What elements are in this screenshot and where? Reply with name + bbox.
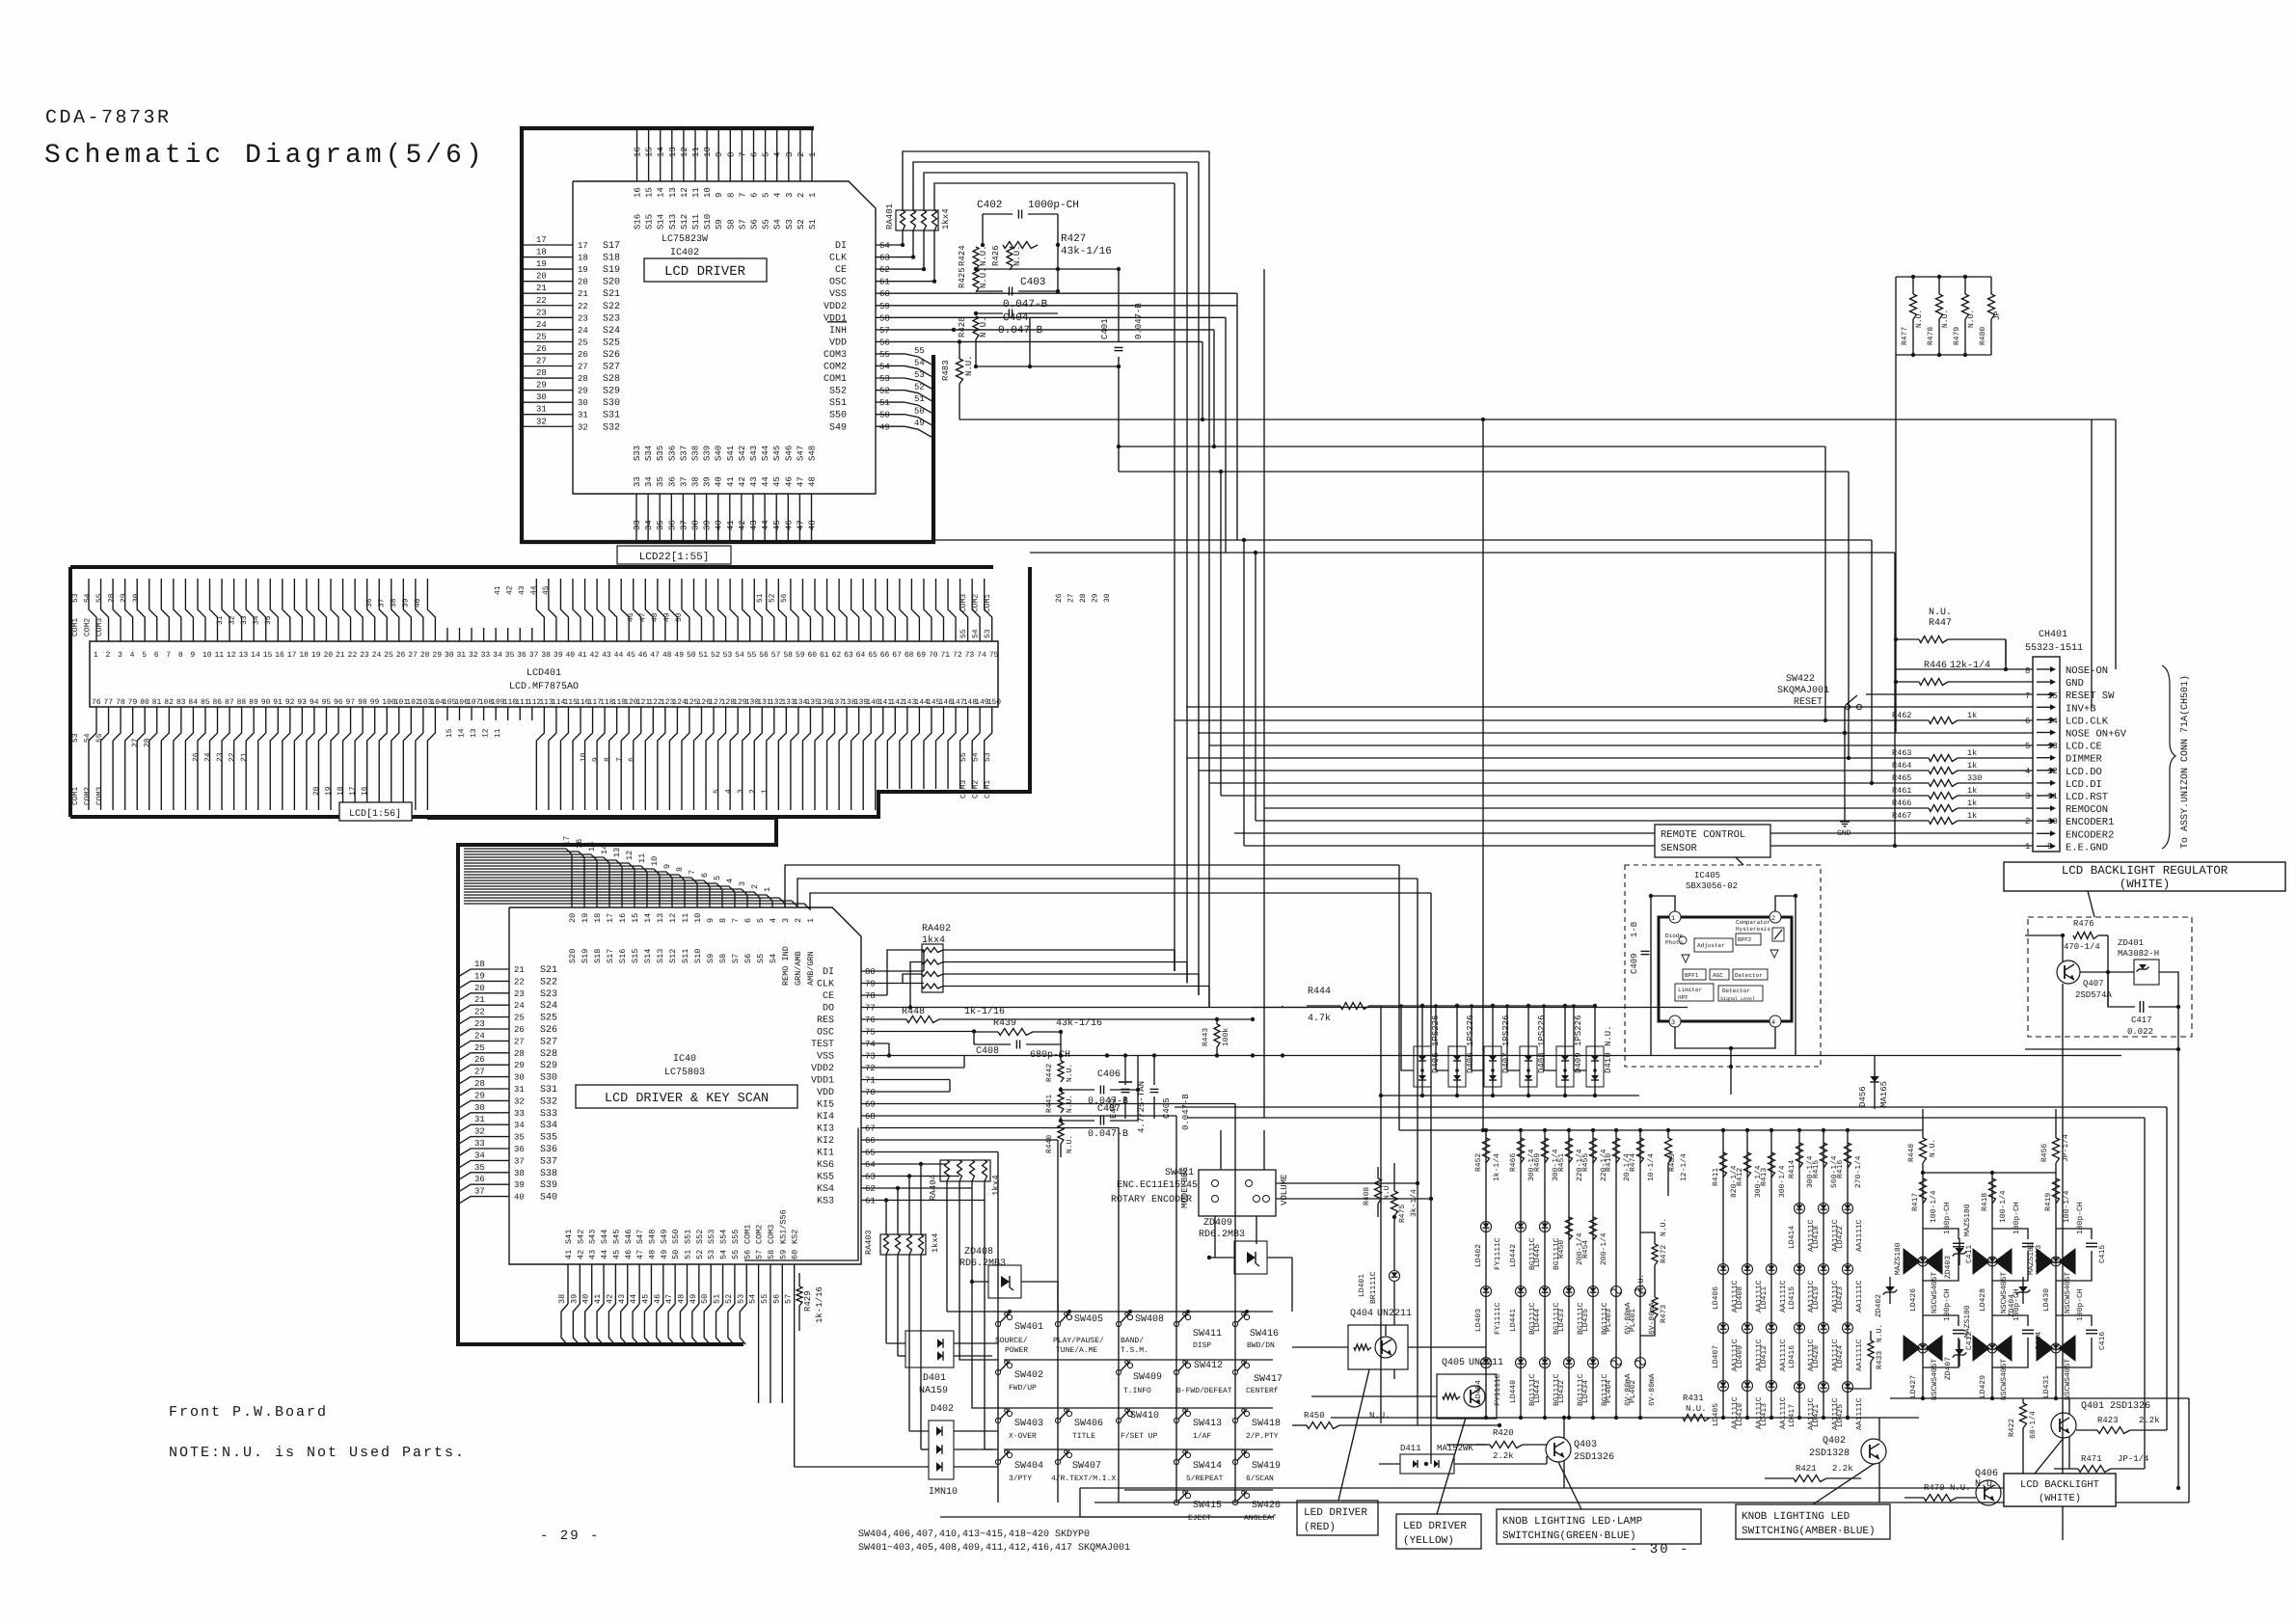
svg-text:5: 5 <box>762 193 771 198</box>
svg-text:30: 30 <box>474 1103 485 1113</box>
svg-text:1kx4: 1kx4 <box>941 208 951 230</box>
capacitor E402 4.7/25-TAN <box>1124 1056 1126 1086</box>
LED LD414 AA1111C <box>1795 1204 1805 1214</box>
svg-text:COM2: COM2 <box>755 1225 765 1244</box>
svg-text:1k-1/4: 1k-1/4 <box>1493 1153 1501 1181</box>
wire RA402 inputs <box>910 962 922 1008</box>
IC405 pin2 circle <box>1769 911 1781 923</box>
svg-text:61: 61 <box>820 651 829 660</box>
LED LD443 BG1111C <box>1540 1358 1551 1368</box>
svg-text:22: 22 <box>348 651 358 660</box>
LED LD445 BG1111C <box>1540 1222 1551 1232</box>
wire LED bottom rail A y=1470 <box>1331 1417 1678 1419</box>
svg-text:S6: S6 <box>743 954 753 963</box>
svg-text:R440: R440 <box>1045 1135 1054 1153</box>
svg-text:S11: S11 <box>691 214 701 230</box>
svg-text:63: 63 <box>865 1173 876 1182</box>
svg-text:32: 32 <box>474 1127 485 1137</box>
svg-text:0.047-B: 0.047-B <box>1088 1129 1128 1140</box>
svg-text:54: 54 <box>735 651 744 660</box>
svg-text:COM2: COM2 <box>972 780 981 798</box>
svg-text:25: 25 <box>578 338 588 347</box>
resistor R477 N.U. <box>1896 276 1991 278</box>
LED LD415 AA1111C <box>1795 1264 1805 1275</box>
resistor R410 20-1/4 <box>1613 1138 1620 1163</box>
svg-text:R443: R443 <box>1202 1028 1210 1046</box>
svg-text:30: 30 <box>445 651 454 660</box>
resistor R412 300-1/4 <box>1744 1152 1751 1177</box>
svg-text:8: 8 <box>604 757 612 762</box>
svg-text:42: 42 <box>738 520 747 530</box>
svg-text:CE: CE <box>823 991 834 1002</box>
svg-text:COM1: COM1 <box>71 618 80 636</box>
resistor R448b N.U. vertical <box>1922 1109 1924 1138</box>
svg-text:4.7k: 4.7k <box>1308 1013 1331 1024</box>
LED LD413 AA1111C <box>1767 1381 1777 1392</box>
wire Q402 collector <box>1878 1418 1880 1440</box>
svg-text:REMO IND: REMO IND <box>781 946 791 986</box>
svg-text:78: 78 <box>865 991 876 1001</box>
resistor R454 200-1/4 <box>1590 1217 1597 1240</box>
svg-text:42: 42 <box>738 476 747 487</box>
svg-text:IC402: IC402 <box>670 248 699 258</box>
svg-text:LD423: LD423 <box>1836 1286 1845 1310</box>
svg-text:S39: S39 <box>540 1180 557 1191</box>
svg-text:51: 51 <box>879 398 890 408</box>
svg-text:7: 7 <box>166 651 171 660</box>
svg-text:32: 32 <box>536 417 547 426</box>
svg-text:R426: R426 <box>991 245 1001 266</box>
resistor R472 N.U. <box>1640 1232 1655 1244</box>
svg-text:16: 16 <box>361 786 369 796</box>
svg-text:R452: R452 <box>1474 1153 1483 1172</box>
svg-text:LD432: LD432 <box>1557 1380 1566 1403</box>
svg-text:67: 67 <box>892 651 902 660</box>
zener ZD404 MAZS180 <box>2018 1286 2028 1292</box>
svg-text:12: 12 <box>680 187 689 198</box>
wire RA402 outputs to vertical buses <box>943 949 1175 951</box>
svg-text:COM1: COM1 <box>824 374 847 385</box>
svg-text:58: 58 <box>783 651 793 660</box>
svg-text:SENSOR: SENSOR <box>1661 843 1698 854</box>
svg-text:S26: S26 <box>540 1025 557 1036</box>
svg-text:S13: S13 <box>668 214 678 230</box>
svg-text:IC40: IC40 <box>673 1054 696 1065</box>
label LCD BACKLIGHT REGULATOR box <box>2004 862 2285 891</box>
svg-text:60: 60 <box>879 289 890 299</box>
svg-text:R416: R416 <box>1836 1160 1845 1178</box>
wire mid verticals feeding CH401 rows <box>1220 472 1222 796</box>
svg-text:S25: S25 <box>603 338 620 348</box>
svg-text:680p-CH: 680p-CH <box>1030 1050 1070 1061</box>
svg-text:VDD1: VDD1 <box>824 313 847 324</box>
LED LD440 BG1111C <box>1516 1358 1526 1368</box>
svg-text:LD402: LD402 <box>1474 1244 1483 1267</box>
svg-text:56: 56 <box>771 1294 781 1304</box>
svg-text:35: 35 <box>514 1133 525 1143</box>
svg-text:S40: S40 <box>540 1193 557 1204</box>
svg-text:R418: R418 <box>1981 1193 1989 1211</box>
resistor R415 560-1/4 <box>1821 1143 1827 1168</box>
svg-text:DI: DI <box>823 967 834 978</box>
svg-text:LCD401: LCD401 <box>527 668 561 679</box>
svg-text:23: 23 <box>474 1019 485 1029</box>
svg-text:19: 19 <box>536 259 547 269</box>
svg-text:TITLE: TITLE <box>1072 1432 1095 1441</box>
svg-text:26: 26 <box>474 1055 485 1065</box>
svg-text:35: 35 <box>656 520 665 530</box>
resistor array RA403 1kx4 <box>880 1234 926 1255</box>
IC U40 LC75803 chip outline <box>509 907 861 1264</box>
svg-text:30: 30 <box>578 398 588 408</box>
wire IC402 pin60 VSS <box>876 292 1237 294</box>
transistor Q406 N.U. <box>1976 1480 2001 1505</box>
svg-text:20: 20 <box>323 651 333 660</box>
resistor R471 JP-1/4 <box>2054 1468 2078 1470</box>
svg-text:56: 56 <box>743 1250 752 1259</box>
svg-text:90: 90 <box>261 698 271 707</box>
wire regulator down <box>2062 984 2064 1540</box>
svg-text:C417: C417 <box>2131 1015 2152 1025</box>
svg-text:S18: S18 <box>593 949 603 963</box>
svg-text:LD405: LD405 <box>1712 1403 1720 1426</box>
svg-text:- 29 -: - 29 - <box>540 1529 600 1544</box>
svg-text:R424: R424 <box>958 245 967 266</box>
svg-text:S7: S7 <box>738 219 747 230</box>
svg-text:S37: S37 <box>540 1156 557 1167</box>
svg-text:11: 11 <box>681 913 690 923</box>
svg-text:7: 7 <box>738 152 747 157</box>
svg-text:50: 50 <box>914 407 925 417</box>
svg-text:R478: R478 <box>1927 327 1935 345</box>
svg-text:28: 28 <box>514 1049 525 1059</box>
svg-text:52: 52 <box>769 593 777 603</box>
zener ZD407 MAZS180 <box>1955 1349 1964 1355</box>
svg-text:1k: 1k <box>1967 786 1977 796</box>
svg-text:13: 13 <box>612 848 622 857</box>
svg-text:S10: S10 <box>703 214 713 230</box>
wire IC40 pin80 DI row <box>861 970 924 972</box>
svg-text:10: 10 <box>2047 817 2058 826</box>
svg-text:1: 1 <box>94 651 98 660</box>
svg-text:29: 29 <box>536 381 547 391</box>
svg-text:48: 48 <box>662 651 672 660</box>
wire CH401 row NOSE-ON <box>1896 668 2033 670</box>
resistor R417 100-1/4 <box>1920 1178 1927 1204</box>
svg-text:28: 28 <box>144 738 152 747</box>
svg-text:31: 31 <box>216 615 225 625</box>
LED LD422 AA1111C <box>1843 1204 1853 1214</box>
svg-text:92: 92 <box>285 698 295 707</box>
svg-text:2: 2 <box>106 651 111 660</box>
svg-text:49: 49 <box>660 1250 669 1259</box>
svg-text:2: 2 <box>797 193 806 198</box>
svg-text:22: 22 <box>578 302 588 311</box>
svg-text:37: 37 <box>474 1187 485 1197</box>
svg-text:LCD[1:56]: LCD[1:56] <box>349 808 401 820</box>
svg-text:1-B: 1-B <box>1630 921 1639 937</box>
svg-text:D456: D456 <box>1858 1086 1868 1107</box>
svg-text:55: 55 <box>747 651 757 660</box>
svg-text:NSCWS405T: NSCWS405T <box>2064 1359 2072 1400</box>
svg-text:LD431: LD431 <box>2042 1375 2051 1398</box>
svg-text:RA404: RA404 <box>929 1175 938 1201</box>
svg-text:KS2: KS2 <box>791 1230 800 1244</box>
svg-text:94: 94 <box>310 698 319 707</box>
wire comb LCD401 top pins to bus <box>89 579 96 641</box>
svg-text:GND: GND <box>1837 829 1851 838</box>
svg-text:71: 71 <box>865 1076 876 1086</box>
svg-text:79: 79 <box>865 980 876 989</box>
svg-text:53: 53 <box>879 374 890 384</box>
svg-text:SW410: SW410 <box>1130 1411 1159 1421</box>
svg-text:29: 29 <box>120 593 128 603</box>
svg-text:4.7/25-TAN: 4.7/25-TAN <box>1137 1081 1147 1133</box>
svg-text:KS1/S56: KS1/S56 <box>778 1209 788 1244</box>
wire IC402 left pins 17-32 with labels <box>522 244 573 246</box>
capacitor C413 100p-CH <box>2022 1242 2034 1244</box>
svg-text:19: 19 <box>474 971 485 981</box>
svg-text:26: 26 <box>396 651 406 660</box>
svg-text:17: 17 <box>536 235 547 245</box>
wire IC402 pin62 CE <box>876 268 924 270</box>
resistor R414 300-1/4 <box>1796 1143 1803 1168</box>
svg-text:SOURCE/: SOURCE/ <box>995 1337 1028 1345</box>
svg-text:S16: S16 <box>618 949 628 963</box>
svg-text:1/AF: 1/AF <box>1193 1432 1211 1441</box>
label REMOTE CONTROL SENSOR box <box>1655 825 1770 857</box>
svg-text:75: 75 <box>989 651 999 660</box>
svg-text:NSCWS405T: NSCWS405T <box>2064 1272 2072 1313</box>
svg-text:37: 37 <box>514 1156 525 1166</box>
svg-text:12: 12 <box>668 913 678 923</box>
svg-text:24: 24 <box>536 320 547 330</box>
svg-text:41: 41 <box>726 520 736 530</box>
net label LCD22[1:55] <box>617 546 731 564</box>
svg-text:ZD402: ZD402 <box>1875 1294 1883 1317</box>
svg-text:LD417: LD417 <box>1788 1404 1796 1427</box>
wire LED column at x=1812 <box>1745 1128 1749 1132</box>
svg-text:47: 47 <box>639 612 648 622</box>
svg-text:11: 11 <box>215 651 225 660</box>
svg-text:S47: S47 <box>635 1230 645 1244</box>
svg-text:46: 46 <box>627 612 635 622</box>
svg-text:ANGLEAf: ANGLEAf <box>1244 1514 1277 1523</box>
diode D411 MA152WK <box>1400 1454 1454 1474</box>
svg-text:MAZS180: MAZS180 <box>1963 1305 1972 1338</box>
svg-text:S37: S37 <box>679 446 689 461</box>
svg-text:R412: R412 <box>1736 1168 1744 1186</box>
svg-text:S25: S25 <box>540 1014 557 1024</box>
wire RA403 out2 to D401 <box>897 1188 899 1234</box>
leader lines from labels <box>1338 1369 1369 1501</box>
svg-text:LD413: LD413 <box>1760 1403 1769 1426</box>
svg-text:CDA-7873R: CDA-7873R <box>45 107 172 129</box>
svg-text:16: 16 <box>275 651 284 660</box>
svg-text:0.022: 0.022 <box>2127 1027 2153 1037</box>
svg-text:12: 12 <box>2047 767 2058 776</box>
svg-text:36: 36 <box>517 651 527 660</box>
svg-text:30: 30 <box>536 392 547 402</box>
wire LED column at x=1627 <box>1567 1128 1571 1132</box>
svg-text:R450: R450 <box>1557 1240 1566 1259</box>
LED LD418 AA1111C <box>1819 1204 1829 1214</box>
svg-text:26: 26 <box>192 752 201 762</box>
resistor R452 1k-1/4 <box>1483 1138 1490 1163</box>
svg-text:39: 39 <box>514 1180 525 1190</box>
svg-text:53: 53 <box>723 651 733 660</box>
svg-text:36: 36 <box>474 1175 485 1184</box>
wire node row y=279 <box>976 268 1119 270</box>
resistor R473 N.U. <box>1652 1297 1658 1318</box>
svg-text:DIMMER: DIMMER <box>2066 754 2103 766</box>
svg-text:SW408: SW408 <box>1135 1314 1164 1325</box>
svg-text:D401: D401 <box>923 1373 946 1384</box>
svg-text:SW404,406,407,410,413~415,418~: SW404,406,407,410,413~415,418~420 SKDYP0 <box>858 1529 1090 1540</box>
resistor R439 43k-1/16 <box>973 1031 975 1034</box>
svg-text:54: 54 <box>879 363 890 372</box>
svg-text:ENCODER1: ENCODER1 <box>2066 817 2114 828</box>
svg-text:18: 18 <box>578 254 588 263</box>
svg-text:22: 22 <box>229 752 237 762</box>
svg-text:2SD1326: 2SD1326 <box>1574 1452 1614 1463</box>
svg-text:ENCODER2: ENCODER2 <box>2066 829 2114 841</box>
svg-text:24: 24 <box>204 752 213 762</box>
svg-text:S36: S36 <box>540 1145 557 1155</box>
svg-text:58: 58 <box>879 313 890 323</box>
svg-text:R455: R455 <box>1581 1153 1590 1172</box>
svg-text:R473: R473 <box>1660 1305 1668 1323</box>
svg-text:SWITCHING(AMBER·BLUE): SWITCHING(AMBER·BLUE) <box>1742 1526 1876 1537</box>
svg-text:1k: 1k <box>1967 798 1977 808</box>
svg-text:COM2: COM2 <box>84 787 93 805</box>
svg-text:15: 15 <box>645 147 655 157</box>
svg-text:R419: R419 <box>2044 1193 2053 1211</box>
svg-text:JP: JP <box>1993 311 2002 320</box>
wire C401 branch <box>1118 269 1120 341</box>
svg-text:KS6: KS6 <box>817 1160 834 1171</box>
svg-text:S10: S10 <box>693 949 703 963</box>
svg-text:64: 64 <box>879 241 890 251</box>
svg-text:LD425: LD425 <box>1836 1404 1845 1427</box>
svg-text:C408: C408 <box>976 1046 999 1057</box>
wire LED bottom rail B y=1470 <box>1678 1417 1919 1419</box>
svg-text:53: 53 <box>71 733 80 743</box>
svg-text:SW409: SW409 <box>1133 1372 1162 1383</box>
wire switch matrix rail KS row3 <box>992 1407 1273 1409</box>
svg-text:N.U.: N.U. <box>1066 1135 1074 1153</box>
svg-text:LD403: LD403 <box>1474 1309 1483 1332</box>
svg-text:41: 41 <box>726 476 736 487</box>
svg-text:S34: S34 <box>644 446 654 461</box>
svg-text:S49: S49 <box>829 422 847 433</box>
wire CH401 row ENCODER2 <box>1234 832 2033 834</box>
svg-text:S23: S23 <box>603 313 620 324</box>
svg-text:LED DRIVER: LED DRIVER <box>1403 1521 1467 1532</box>
lamp PL401 6V-80mA <box>1635 1286 1646 1297</box>
svg-text:43k-1/16: 43k-1/16 <box>1061 246 1112 257</box>
svg-text:100p-CH: 100p-CH <box>2076 1202 2085 1234</box>
svg-text:12: 12 <box>625 851 635 860</box>
svg-text:F/SET UP: F/SET UP <box>1121 1432 1158 1441</box>
svg-text:77: 77 <box>865 1004 876 1014</box>
wire sw422 wiring <box>1825 706 1845 708</box>
wire Q401 collector <box>2068 1398 2070 1414</box>
svg-text:59: 59 <box>879 302 890 311</box>
resistor R455 220-1/4 <box>1590 1138 1597 1163</box>
svg-text:33: 33 <box>240 615 249 625</box>
svg-text:44: 44 <box>600 1250 609 1259</box>
wire vertical bus x=1218 <box>1174 183 1175 971</box>
svg-text:100p-CH: 100p-CH <box>1943 1288 1952 1321</box>
svg-text:N.U.: N.U. <box>1660 1218 1668 1236</box>
svg-text:S2: S2 <box>797 219 806 230</box>
svg-text:1kx4: 1kx4 <box>922 934 945 946</box>
resistor R442 N.U. <box>1060 1056 1062 1062</box>
svg-text:6/SCAN: 6/SCAN <box>1246 1475 1274 1483</box>
svg-text:S30: S30 <box>540 1073 557 1084</box>
svg-text:COM3: COM3 <box>959 594 968 612</box>
svg-text:44: 44 <box>761 476 770 487</box>
svg-text:LD411: LD411 <box>1760 1286 1769 1310</box>
svg-text:29: 29 <box>514 1061 525 1070</box>
svg-text:34: 34 <box>474 1150 485 1160</box>
svg-text:INH: INH <box>829 326 847 337</box>
svg-text:R441: R441 <box>1045 1095 1054 1113</box>
wire IC402 pin58 VDD1 <box>876 316 1226 318</box>
svg-text:S13: S13 <box>656 949 665 963</box>
svg-text:R466: R466 <box>1509 1153 1518 1172</box>
IC405 pin3 circle <box>1669 1015 1681 1027</box>
wire IC40 pin74 TEST row <box>861 1042 889 1044</box>
zener ZD408 RD6.2MB3 <box>988 1265 1021 1298</box>
svg-text:R451: R451 <box>1557 1153 1566 1172</box>
LED LD428 NSCWS405T <box>1973 1249 1989 1274</box>
wire rail below diodes y=1136 <box>1381 1095 1639 1096</box>
svg-text:32: 32 <box>578 422 588 432</box>
svg-text:68: 68 <box>865 1112 876 1122</box>
svg-text:32: 32 <box>514 1096 525 1106</box>
svg-text:38: 38 <box>390 598 398 608</box>
svg-text:10: 10 <box>703 187 713 198</box>
svg-text:54: 54 <box>972 629 981 638</box>
svg-text:25: 25 <box>536 332 547 341</box>
svg-text:Q402: Q402 <box>1823 1436 1846 1447</box>
svg-text:LCD22[1:55]: LCD22[1:55] <box>639 552 710 563</box>
svg-text:15: 15 <box>587 842 597 852</box>
svg-text:50: 50 <box>700 1294 710 1304</box>
svg-text:S4: S4 <box>773 219 783 230</box>
svg-text:23: 23 <box>360 651 369 660</box>
svg-text:R444: R444 <box>1308 987 1331 997</box>
svg-text:S46: S46 <box>784 446 794 461</box>
LED LD435 BG1111C <box>1588 1286 1599 1297</box>
svg-text:R469: R469 <box>1533 1153 1542 1172</box>
svg-text:S42: S42 <box>576 1230 585 1244</box>
wire IC402 pins 55-49 staircase to bus <box>876 353 905 355</box>
LED LD402 FY1111C <box>1481 1222 1492 1232</box>
wire IC40 pin70 VDD row <box>861 1091 950 1093</box>
LED LD410 AA1111C <box>1742 1381 1753 1392</box>
svg-text:88: 88 <box>237 698 247 707</box>
capacitor C417 0.022 <box>2107 972 2109 1007</box>
wire x=2169 vertical <box>2091 420 2093 707</box>
svg-text:ZD407: ZD407 <box>1944 1357 1953 1380</box>
svg-text:40: 40 <box>514 1193 525 1203</box>
svg-text:SKQMAJ001: SKQMAJ001 <box>1777 686 1829 696</box>
svg-text:2/P.PTY: 2/P.PTY <box>1246 1432 1279 1441</box>
svg-text:1PS226: 1PS226 <box>1537 1015 1547 1046</box>
